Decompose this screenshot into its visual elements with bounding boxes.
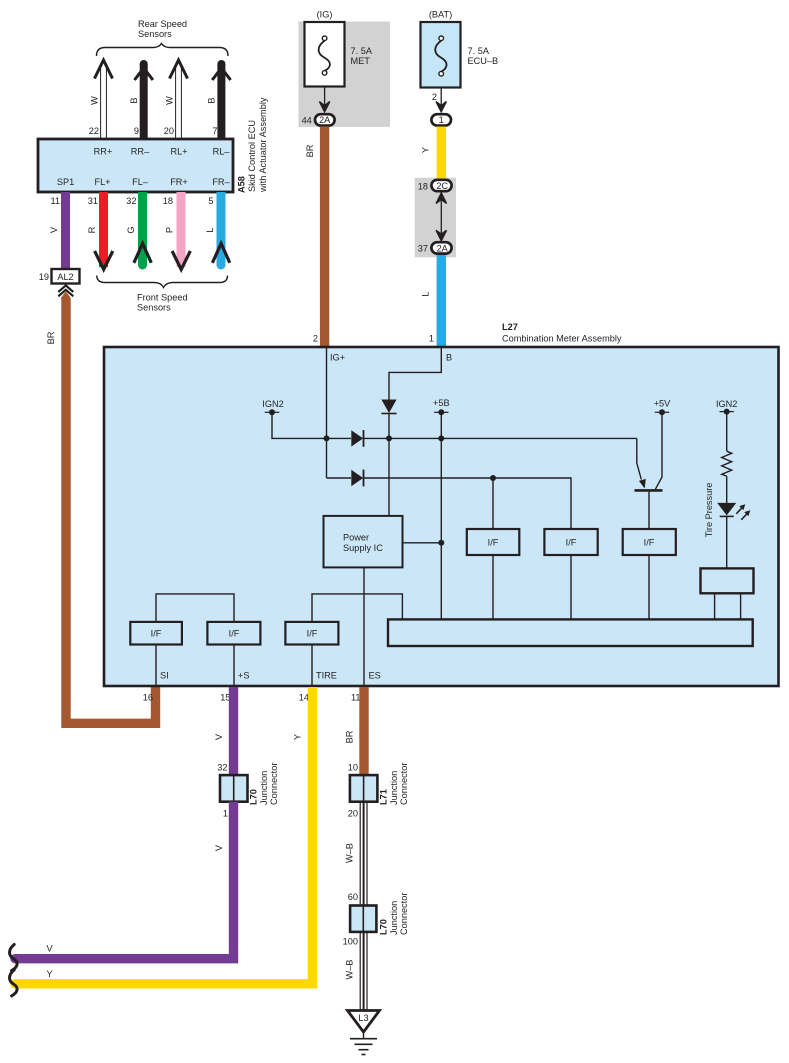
wire B entry jog (389, 348, 441, 400)
wire B to RR- (thick black, pin 9) (140, 64, 148, 138)
connector AL2 (52, 269, 80, 284)
svg-text:RL+: RL+ (170, 147, 187, 157)
svg-text:IGN2: IGN2 (716, 399, 737, 409)
svg-text:TIRE: TIRE (316, 671, 337, 681)
svg-text:11: 11 (351, 693, 361, 703)
Power Supply IC U1 (324, 516, 403, 568)
junction dot +5B x PS IC line (438, 540, 444, 546)
wire BR from AL2 down and right to pin 16 (66, 299, 156, 724)
svg-text:Y: Y (293, 734, 303, 740)
I/F block U6 (lower row +S) (207, 622, 260, 645)
svg-text:14: 14 (299, 693, 309, 703)
cut squiggle Y wire (10, 970, 18, 996)
connector oval 2C (431, 180, 451, 191)
arrow down on R wire (95, 251, 113, 270)
bus bar (388, 619, 753, 646)
svg-text:Connector: Connector (399, 763, 409, 805)
svg-text:19: 19 (39, 272, 49, 282)
wire from D3 down to Power Supply IC (388, 414, 390, 516)
svg-text:Y: Y (47, 969, 53, 979)
svg-text:20: 20 (164, 126, 174, 136)
combination meter box L27 (104, 347, 779, 686)
wire L from FR- (pin 5) (217, 192, 226, 265)
svg-text:IG+: IG+ (330, 353, 345, 363)
wire Y from connector 1 to 2C (437, 127, 446, 180)
svg-text:60: 60 (348, 892, 358, 902)
svg-text:V: V (214, 844, 224, 851)
svg-text:MET: MET (351, 56, 371, 66)
svg-text:FL–: FL– (132, 177, 149, 187)
svg-text:2: 2 (432, 92, 437, 102)
tire pressure block (701, 568, 754, 593)
svg-text:W: W (90, 96, 100, 105)
wire from fuse to connector 2A (324, 87, 326, 108)
wire W to RL+ (thin white wire, pin 20) (176, 64, 182, 138)
svg-text:L27: L27 (502, 322, 518, 332)
svg-text:I/F: I/F (229, 629, 240, 639)
wire V from pin 15 to L70 (229, 687, 238, 776)
diode D3 (from B, pointing down) (381, 400, 396, 414)
svg-text:FL+: FL+ (94, 177, 110, 187)
wire from fuse to connector 1 (440, 88, 442, 108)
arrow up toward 2C and wire to 2A (436, 193, 446, 204)
svg-text:RR–: RR– (131, 147, 150, 157)
svg-text:SI: SI (160, 671, 169, 681)
svg-text:Junction: Junction (259, 771, 269, 805)
transistor Q1 bar (635, 489, 663, 492)
svg-text:7. 5A: 7. 5A (351, 46, 373, 56)
svg-text:Connector: Connector (399, 893, 409, 935)
gray background block around 2C/2A junction (415, 178, 456, 258)
svg-text:L70: L70 (379, 919, 389, 935)
svg-text:Supply IC: Supply IC (343, 543, 383, 553)
svg-text:18: 18 (418, 182, 428, 192)
wire IGN2 to resistor (726, 412, 728, 452)
svg-text:44: 44 (302, 116, 312, 126)
svg-text:+5B: +5B (433, 398, 450, 408)
svg-text:16: 16 (143, 693, 153, 703)
svg-text:11: 11 (50, 196, 60, 206)
svg-text:L3: L3 (358, 1013, 368, 1023)
svg-text:+S: +S (238, 671, 250, 681)
arrow chevron on RL- wire (212, 68, 230, 80)
svg-text:2: 2 (313, 334, 318, 344)
arrow down toward 2A (436, 230, 446, 241)
svg-text:L71: L71 (379, 789, 389, 805)
svg-text:1: 1 (223, 809, 228, 819)
double chevron below AL2 (65, 284, 67, 287)
I/F block U4 (upper row 3) (623, 529, 676, 555)
svg-text:AL2: AL2 (57, 272, 73, 282)
wire PS IC bottom to ES pin (363, 567, 365, 686)
svg-text:7: 7 (212, 126, 217, 136)
svg-text:2A: 2A (437, 244, 449, 254)
svg-text:L70: L70 (249, 789, 259, 805)
wire bridge joining U5 and U6 tops (156, 594, 234, 622)
svg-text:FR–: FR– (212, 177, 230, 187)
wire BR from 2A to IG+ pin 2 (320, 127, 329, 347)
wire V from L70 down then left to cut (15, 802, 234, 959)
svg-text:Combination Meter Assembly: Combination Meter Assembly (502, 334, 622, 344)
gray background block around MET fuse (299, 22, 391, 127)
svg-text:I/F: I/F (151, 629, 162, 639)
svg-text:A58: A58 (237, 176, 247, 193)
svg-text:with Actuator Assembly: with Actuator Assembly (258, 97, 268, 193)
junction connector L70 (lower) (350, 906, 376, 932)
svg-text:+5V: +5V (654, 399, 671, 409)
svg-text:10: 10 (348, 763, 358, 773)
svg-text:W: W (165, 96, 175, 105)
wire resistor to LED (726, 476, 728, 503)
brace over rear speed sensor wires (97, 44, 229, 57)
svg-text:B: B (446, 353, 452, 363)
junction connector L71 (350, 775, 378, 802)
junction dot I/F1 x diode2 line (490, 475, 496, 481)
I/F block U2 (upper row 1) (467, 529, 520, 555)
wire U6 to +S pin (233, 645, 235, 687)
svg-text:W–B: W–B (345, 960, 355, 980)
wire LED to tire block (726, 516, 728, 568)
svg-text:ES: ES (369, 671, 381, 681)
svg-text:18: 18 (163, 196, 173, 206)
arrow into connector 2A (319, 102, 329, 112)
wire B to RL- (thick black, pin 7) (217, 64, 225, 138)
svg-text:20: 20 (348, 809, 358, 819)
svg-text:L: L (421, 291, 431, 296)
svg-text:(IG): (IG) (317, 10, 333, 20)
wire diode line to transistor corner (363, 437, 637, 439)
svg-text:Junction: Junction (389, 771, 399, 805)
svg-text:(BAT): (BAT) (429, 10, 452, 20)
wire U7 to TIRE pin (311, 645, 313, 687)
diode D1 (pointing right) (351, 430, 363, 446)
transistor Q1 base line with arrow (637, 438, 642, 479)
wire I/F1 top tap (492, 478, 494, 529)
svg-text:V: V (47, 944, 54, 954)
svg-text:2A: 2A (319, 115, 331, 125)
svg-text:V: V (49, 226, 59, 233)
svg-text:Rear Speed: Rear Speed (138, 19, 187, 29)
arrow chevron up on G wire (134, 244, 151, 263)
svg-text:2C: 2C (436, 181, 448, 191)
wire tire block stubs to bus (714, 593, 716, 620)
brace under front speed sensor wires (97, 276, 228, 288)
wire second diode row (327, 478, 572, 529)
svg-text:IGN2: IGN2 (262, 399, 283, 409)
svg-text:100: 100 (343, 937, 358, 947)
junction connector L70 (upper) (220, 775, 248, 802)
svg-text:Connector: Connector (269, 763, 279, 805)
svg-text:ECU–B: ECU–B (468, 56, 499, 66)
wire BR from pin 11 to L71 (359, 687, 368, 776)
svg-text:Sensors: Sensors (138, 29, 172, 39)
connector oval 2A lower (431, 242, 451, 253)
connector oval 2A (315, 114, 335, 125)
svg-text:32: 32 (217, 763, 227, 773)
svg-text:I/F: I/F (566, 538, 577, 548)
junction dot +5B x diode line (438, 435, 444, 441)
svg-text:RR+: RR+ (94, 147, 113, 157)
I/F block U3 (upper row 2) (544, 529, 597, 555)
svg-text:9: 9 (134, 126, 139, 136)
svg-text:FR+: FR+ (170, 177, 188, 187)
arrow down on P wire (172, 251, 190, 270)
wire L from 2A to pin 1 of meter (437, 255, 446, 346)
svg-text:Front Speed: Front Speed (137, 293, 188, 303)
wire P from FR+ (pin 18) (177, 192, 186, 267)
Skid Control ECU box A58 (38, 139, 233, 192)
svg-text:BR: BR (46, 331, 56, 344)
I/F block U7 (lower row TIRE) (285, 622, 338, 645)
svg-text:1: 1 (439, 115, 444, 125)
svg-text:I/F: I/F (644, 538, 655, 548)
wire I/F2 to bus (570, 555, 572, 620)
svg-text:L: L (205, 227, 215, 232)
wire IGN2 stub to diode line (272, 412, 351, 438)
arrow up on RR+ wire (95, 60, 113, 79)
svg-text:22: 22 (89, 126, 99, 136)
junction dot IG+ x diode line (324, 435, 330, 441)
junction dot D3 column x diode line (386, 435, 392, 441)
svg-text:B: B (129, 97, 139, 103)
svg-text:Tire Pressure: Tire Pressure (704, 483, 714, 538)
svg-text:Power: Power (343, 533, 369, 543)
fuse 7.5A MET (305, 22, 345, 87)
svg-text:RL–: RL– (213, 147, 231, 157)
wire I/F3 to bus (648, 555, 650, 620)
svg-text:B: B (207, 97, 217, 103)
svg-text:W–B: W–B (345, 843, 355, 863)
wire V from SP1 to AL2 (61, 192, 70, 269)
svg-text:BR: BR (305, 144, 315, 157)
svg-text:32: 32 (126, 196, 136, 206)
wire U5 to SI pin (155, 645, 157, 687)
diode D2 (pointing right) (351, 470, 363, 486)
transistor Q1 collector line from +5V (655, 412, 662, 489)
wire +5B vertical to bus (440, 412, 442, 620)
wire I/F1 to bus (492, 555, 494, 620)
svg-text:7. 5A: 7. 5A (468, 46, 490, 56)
wire W to RR+ (thin white wire, pin 22) (101, 64, 107, 138)
svg-text:37: 37 (418, 244, 428, 254)
arrow up on RL+ wire (170, 60, 188, 79)
arrow chevron up on L wire (212, 244, 229, 263)
cut squiggle V wire (10, 945, 18, 971)
wire IG+ internal vertical (326, 348, 328, 478)
wire G from FL- (pin 32) (138, 192, 147, 265)
arrow into connector 1 (436, 102, 446, 112)
svg-text:Junction: Junction (389, 901, 399, 935)
wire from U7 top to bus (312, 594, 402, 622)
svg-text:Sensors: Sensors (137, 303, 171, 313)
svg-text:31: 31 (88, 196, 98, 206)
connector oval 1 (431, 114, 451, 125)
svg-text:R: R (87, 226, 97, 233)
wire Y from pin 14 down then left to cut (15, 687, 313, 984)
ground symbol (363, 1032, 365, 1038)
fuse 7.5A ECU-B (421, 22, 461, 88)
wire W-B from L70 to ground (360, 932, 367, 1010)
svg-text:V: V (214, 733, 224, 740)
svg-text:1: 1 (429, 334, 434, 344)
svg-text:5: 5 (208, 196, 213, 206)
ground L3 triangle (348, 1011, 380, 1033)
svg-text:SP1: SP1 (57, 177, 74, 187)
wire W-B from L71 to L70 lower (360, 802, 367, 906)
wire Q1 emitter down to I/F3 (648, 492, 650, 529)
svg-text:I/F: I/F (488, 538, 499, 548)
LED tire pressure indicator (717, 503, 736, 516)
resistor R1 (722, 451, 732, 476)
svg-text:P: P (165, 227, 175, 233)
arrow chevron on RR- wire (135, 68, 153, 80)
wire R from FL+ (pin 31) (99, 192, 108, 267)
svg-text:I/F: I/F (307, 629, 318, 639)
svg-text:Skid Control ECU: Skid Control ECU (247, 120, 257, 192)
svg-text:BR: BR (345, 730, 355, 743)
wire PS IC right to +5B (403, 542, 442, 544)
svg-text:G: G (126, 226, 136, 233)
svg-text:Y: Y (421, 147, 431, 153)
I/F block U5 (lower row SI) (130, 622, 182, 645)
